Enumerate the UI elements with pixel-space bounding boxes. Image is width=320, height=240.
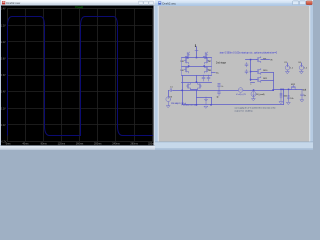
ground under C6: [300, 100, 304, 102]
svg-text:Draft2.asc: Draft2.asc: [162, 1, 176, 5]
svg-text:0.2V: 0.2V: [1, 108, 6, 110]
svg-text:V(out): V(out): [75, 5, 83, 9]
wire left rail vertical: [181, 58, 183, 76]
transistor M12 output: [291, 85, 297, 89]
svg-text:a: a: [250, 83, 251, 85]
resistor R1: [280, 90, 282, 101]
svg-text:0.0V: 0.0V: [1, 125, 6, 127]
svg-text:Cc: Cc: [221, 86, 223, 88]
capacitor C3: [207, 75, 210, 81]
transistor M6: [184, 66, 189, 73]
title icon: [158, 1, 161, 4]
wire battery loop right: [211, 98, 213, 105]
wire M10 gate lead: [251, 71, 257, 73]
wire feedback vertical: [283, 90, 285, 105]
wire battery loop left: [196, 91, 198, 105]
client grey area: [159, 6, 310, 142]
svg-text:10k: 10k: [290, 98, 293, 100]
node junction dot feedback: [282, 89, 284, 91]
node junction dot I1 tap: [253, 89, 255, 91]
node junction dot input: [182, 90, 184, 92]
wire M11 gate lead: [251, 79, 257, 81]
wire left column: [182, 76, 184, 105]
wire input row: [173, 90, 183, 92]
voltage source V4: [299, 65, 304, 70]
transistor M11: [257, 77, 261, 83]
title icon: [2, 1, 5, 4]
wire M11 drain row: [261, 80, 274, 82]
capacitor Cc compensation branch: [218, 84, 221, 96]
voltage source V3: [166, 97, 171, 102]
transistor M9: [257, 57, 261, 63]
svg-text:out: out: [303, 89, 307, 92]
svg-text:200ms: 200ms: [94, 143, 102, 146]
wire V1 top stub: [287, 63, 289, 65]
node junction dots top rail: [186, 57, 188, 59]
transistor M13 above rail left: [185, 52, 190, 58]
y axis labels: [1, 9, 7, 144]
node junction dots output row: [280, 89, 282, 91]
node junction dot bias row: [196, 81, 198, 83]
transistor M7: [204, 57, 209, 64]
left border: [0, 0, 1, 150]
ground under battery: [204, 106, 208, 108]
wire bias row: [182, 82, 212, 84]
svg-text:Draft2.raw: Draft2.raw: [6, 1, 21, 5]
wire diff source row: [197, 90, 220, 92]
wire mid rail: [182, 66, 212, 68]
wire top row label stub: [261, 59, 270, 61]
node junction dots mid rail: [188, 65, 190, 67]
wire second stage column: [250, 60, 252, 81]
svg-text:.tran 0 500m 0 100u startup ui: .tran 0 500m 0 100u startup uic .options…: [219, 51, 278, 54]
wire VDD stub: [196, 47, 198, 58]
svg-text:80ms: 80ms: [41, 143, 48, 146]
wire output row: [274, 89, 303, 91]
min max buttons: [293, 1, 306, 5]
svg-text:3p: 3p: [217, 97, 219, 99]
svg-text:2nd stage: 2nd stage: [216, 62, 227, 65]
window frame: [155, 0, 313, 150]
capacitor C4: [245, 63, 248, 67]
capacitor Cin on input wire: [168, 89, 173, 92]
svg-text:0ms: 0ms: [6, 143, 11, 146]
transistor M5: [204, 66, 209, 73]
title bar: [0, 0, 155, 6]
svg-text:Vb: Vb: [270, 60, 272, 62]
capacitor C5: [245, 70, 248, 74]
transistor M14 above rail right: [203, 52, 208, 58]
wire top rail: [182, 57, 212, 59]
node junction dots column: [250, 59, 252, 61]
wire right column vertical: [273, 73, 275, 91]
voltage source V1: [285, 65, 290, 70]
transistor M1 diff pair left: [186, 83, 190, 90]
ground under R2: [287, 102, 291, 104]
svg-text:1.2: 1.2: [304, 68, 307, 70]
wire V3 top stub: [168, 91, 170, 97]
svg-text:output for stability: output for stability: [235, 109, 254, 112]
transistor M8: [184, 57, 189, 64]
transistor M10: [257, 69, 261, 75]
svg-text:160ms: 160ms: [76, 143, 84, 146]
title bar: [155, 0, 313, 6]
capacitor C2: [202, 75, 205, 81]
svg-text:0.4V: 0.4V: [1, 92, 6, 94]
plot black area: [1, 6, 154, 146]
wire B1 to I1: [243, 90, 274, 92]
svg-text:15u: 15u: [216, 73, 219, 75]
capacitor C6 load: [301, 89, 304, 100]
ground under V1: [286, 70, 290, 74]
titlebar buttons: [139, 1, 154, 4]
ground under I1: [252, 97, 256, 101]
wire diff pair sources: [191, 89, 198, 91]
voltage source V2 battery: [204, 97, 207, 105]
svg-text:BI_(asdf): BI_(asdf): [257, 94, 265, 96]
behavioral source B1: [238, 88, 243, 93]
wire Cc to B1: [219, 90, 238, 92]
node junction dots rail: [196, 104, 198, 106]
border inner highlight: [157, 6, 159, 142]
svg-text:1.0V: 1.0V: [1, 42, 6, 44]
right border: [154, 6, 155, 150]
wire ground rail: [183, 104, 284, 106]
svg-text:1.2: 1.2: [290, 68, 293, 70]
x axis labels: [6, 143, 156, 146]
ground under V3: [167, 102, 171, 108]
svg-text:use supply of 1.2 V and limit: use supply of 1.2 V and limit the slew r…: [235, 107, 277, 110]
transistor M2 diff pair right: [197, 83, 201, 90]
wire M10 drain to right column: [261, 72, 274, 74]
node junction dot right column: [272, 89, 274, 91]
node a label stub: [251, 82, 255, 84]
wire gate row top: [246, 59, 257, 61]
ground under V4: [300, 70, 304, 74]
wire lower rail: [182, 75, 212, 77]
resistor R2: [287, 90, 289, 102]
trace: [8, 17, 154, 136]
svg-text:0.6V: 0.6V: [1, 75, 6, 77]
wire right rail vertical: [211, 58, 213, 76]
svg-text:0.8V: 0.8V: [1, 59, 6, 61]
current source I1: [251, 92, 256, 97]
close button: [306, 1, 312, 5]
node junction dot VDD rail: [196, 57, 198, 59]
wire input to diff gate: [183, 90, 197, 92]
svg-text:V=V(a)*K: V=V(a)*K: [236, 94, 247, 96]
svg-text:1.4V: 1.4V: [1, 9, 6, 11]
wire battery loop top: [197, 97, 212, 99]
wire V4 top stub: [301, 63, 303, 65]
wire center stub: [196, 76, 198, 83]
ground under R1: [279, 102, 283, 104]
svg-text:1.2V: 1.2V: [1, 25, 6, 27]
wire bias tail stub: [212, 72, 216, 74]
svg-text:120ms: 120ms: [58, 143, 66, 146]
svg-text:280ms: 280ms: [130, 143, 138, 146]
bottom strip: [0, 146, 155, 151]
svg-text:240ms: 240ms: [112, 143, 120, 146]
svg-text:40ms: 40ms: [22, 143, 29, 146]
